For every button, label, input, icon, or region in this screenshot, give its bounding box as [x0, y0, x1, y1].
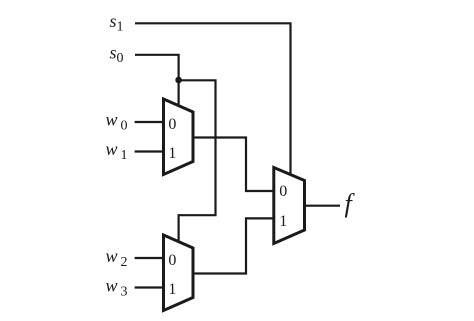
svg-text:2: 2	[121, 255, 128, 270]
svg-text:s: s	[110, 11, 117, 31]
svg-text:w: w	[106, 110, 118, 130]
wire w0 input	[135, 121, 164, 123]
wire f output	[305, 205, 341, 207]
svg-text:1: 1	[117, 20, 124, 35]
wire U2 output to U3 input 1	[193, 218, 274, 273]
svg-text:w: w	[106, 139, 118, 159]
wire U1 output to U3 input 0	[193, 138, 274, 192]
svg-text:1: 1	[168, 145, 176, 162]
svg-text:0: 0	[168, 116, 176, 133]
svg-text:s: s	[110, 43, 117, 63]
svg-text:1: 1	[279, 213, 287, 230]
mux U1 (top 2-to-1 multiplexer trapezoid)	[164, 99, 194, 175]
wire w1 input	[135, 150, 164, 152]
svg-text:0: 0	[121, 119, 128, 134]
mux U3 (output 2-to-1 multiplexer trapezoid)	[274, 168, 305, 244]
svg-text:1: 1	[168, 281, 176, 298]
svg-text:w: w	[106, 276, 118, 296]
svg-text:w: w	[106, 246, 118, 266]
wire s0 net: horizontal from label then down to select of mux U1	[135, 55, 179, 107]
wire s0 branch to select of mux U2	[179, 80, 216, 242]
svg-text:1: 1	[121, 148, 128, 163]
svg-text:3: 3	[121, 285, 128, 300]
wire s1 net: horizontal from label to x=290.5 then down to select of mux U3	[135, 23, 291, 176]
mux U2 (bottom 2-to-1 multiplexer trapezoid)	[164, 235, 194, 311]
wire w3 input	[135, 286, 164, 288]
node junction dot on s0	[175, 77, 182, 84]
svg-text:0: 0	[168, 252, 176, 269]
svg-text:0: 0	[117, 51, 124, 66]
svg-text:0: 0	[279, 183, 287, 200]
wire w2 input	[135, 257, 164, 259]
